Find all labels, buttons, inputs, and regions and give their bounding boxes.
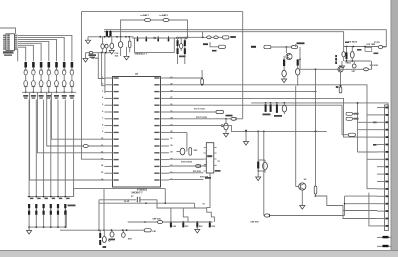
wire bus under chains [22, 91, 76, 93]
label cluster 104 [89, 54, 97, 56]
input chain R11/D11 column 1 [24, 62, 27, 68]
diode D10 [231, 117, 236, 120]
wire long vertical to Q7 [295, 86, 297, 187]
U7 right pin 18 [161, 172, 170, 174]
label matrix diodes [68, 205, 76, 207]
wire U7 pin2 feed [102, 53, 105, 86]
svg-text:U10 7805: U10 7805 [367, 44, 377, 46]
net label feed b [346, 117, 353, 120]
junction open b [177, 37, 179, 39]
wire Q5 down rail [295, 44, 297, 47]
capacitor C3 reservoir [118, 42, 122, 48]
U7 left pin 3 [105, 91, 113, 93]
J2 pin 9 [377, 166, 385, 168]
J2 pin 10 [377, 173, 385, 175]
svg-text:XXXX: XXXX [346, 63, 352, 65]
resistor R13 [265, 104, 267, 112]
junction [128, 36, 130, 38]
ground C15 [243, 142, 248, 146]
wire 7805 mid rail [345, 60, 371, 62]
svg-text:AT89S52: AT89S52 [137, 189, 148, 192]
wire fan-out row 5 [18, 43, 41, 61]
crystal Y1 [177, 40, 179, 46]
wire column drop 2 [35, 100, 37, 197]
U7 right pin 26 [161, 118, 170, 120]
junction [116, 36, 118, 38]
U7 right pin 19 [161, 165, 170, 167]
wire feed pin5 [344, 136, 378, 137]
U7 right pin 23 [161, 138, 170, 140]
wire branch pin row 9 [186, 132, 188, 151]
U7 left pin 13 [105, 159, 113, 161]
svg-text:XX2: XX2 [199, 226, 203, 228]
svg-text:54XX8-7-7: 54XX8-7-7 [132, 192, 144, 195]
wire row p2 b [169, 172, 204, 174]
svg-text:XX1: XX1 [185, 226, 189, 228]
svg-text:XT1 T1 XX1: XT1 T1 XX1 [194, 108, 206, 110]
wire vert x263 [263, 131, 265, 215]
svg-text:XX0: XX0 [173, 226, 177, 228]
U7 left pin 1 [105, 77, 113, 79]
status bar bottom edge [0, 250, 398, 257]
capacitor C15 [245, 130, 247, 131]
wire column drop 3 [43, 100, 45, 197]
resistor R14 [270, 104, 272, 112]
U7 right pin 32 [161, 77, 170, 79]
wire battery branch [121, 20, 188, 37]
resistor R1 to BAT [145, 18, 151, 21]
wire fan-out row 1 [18, 35, 72, 61]
junction row [245, 131, 247, 133]
svg-text:XX3: XX3 [211, 226, 215, 228]
ground C3 [124, 56, 129, 60]
wire column drop 5 [57, 100, 59, 197]
ground 7805 [341, 61, 343, 66]
input chain R13/D13 column 3 [40, 62, 43, 68]
U8 pins [204, 148, 217, 172]
wire feed pin11 [345, 203, 378, 205]
wire VCC bus lower [104, 32, 344, 47]
wire route chain to U7 pin10 [47, 92, 83, 146]
wire reset row [176, 36, 223, 38]
U7 left pin 8 [105, 125, 113, 127]
wire route chain to U7 pin11 [37, 92, 104, 153]
U7 left pin 9 [105, 131, 113, 133]
U7 left pin 5 [105, 104, 113, 106]
wire fan-out row 6 [18, 45, 33, 61]
J2 pin 11 [377, 181, 385, 183]
label xtal cluster [179, 56, 186, 58]
wire digit driver rail [132, 37, 186, 39]
junction open a [154, 37, 156, 39]
wire q8 row2 [316, 68, 364, 70]
diode pair D6 matrix column 6 [64, 196, 66, 198]
svg-text:GND4148-7-7: GND4148-7-7 [135, 53, 148, 56]
regulator U10 7805 [365, 48, 372, 52]
junction [125, 36, 127, 38]
U7 left pin 14 [105, 165, 113, 167]
junction bottom bus [98, 229, 100, 231]
wire U7 pin1 feed [98, 53, 104, 79]
wire matrix under-IC link [74, 189, 166, 197]
ground bus left [87, 37, 89, 40]
U7 left pin 16 [105, 179, 113, 181]
wire top-left entry [0, 28, 16, 34]
resistor R10 pull [201, 79, 204, 85]
wire row P0.2 bus [169, 98, 344, 136]
resistor R5 vertical [128, 41, 131, 47]
part X2 bottom [110, 232, 114, 237]
wire column drop 6 [64, 100, 66, 197]
capacitor C20 [352, 64, 356, 68]
junction [120, 36, 122, 38]
svg-text:U8P XX5: U8P XX5 [153, 218, 162, 220]
capacitor C13 under IC [137, 197, 140, 203]
junction [108, 36, 110, 38]
wire row p2 c [169, 179, 204, 181]
resistor R12 bottom [99, 233, 101, 238]
junction r1 [265, 102, 267, 104]
diode D9 row [195, 165, 200, 168]
transistor Q5 [286, 53, 292, 59]
transistor Q4 digit driver [168, 39, 170, 42]
wire stair a [170, 208, 172, 222]
wire row P0.6 route [169, 126, 327, 132]
ground bottom row [196, 227, 198, 230]
ground cluster [257, 171, 259, 177]
J2 pin 16 [377, 218, 385, 220]
svg-text:R9 300: R9 300 [92, 58, 99, 60]
wire feed loop [369, 193, 377, 226]
transistor Q9 bottom row [209, 221, 211, 223]
wire long vert right [357, 103, 359, 152]
wire fan-out row 2 [18, 37, 64, 61]
wire fan-out row 7 [18, 47, 26, 61]
wire under IC [99, 199, 136, 201]
capacitor C1 [101, 44, 104, 49]
capacitor C2 [110, 43, 114, 48]
resistor R15 [276, 104, 278, 113]
J2 pin side marks [373, 122, 377, 124]
capacitor C4a [177, 48, 179, 54]
U7 right pin 30 [161, 91, 170, 93]
transistor Q1 digit driver [137, 39, 139, 42]
battery plug P3 [378, 46, 383, 49]
wire Q5 base drop [285, 47, 287, 53]
diode pair D3 matrix column 3 [43, 196, 45, 198]
ground cluster left [85, 53, 87, 59]
capacitor C5 bead [207, 36, 211, 39]
wire column drop 4 [50, 100, 52, 197]
capacitor C16 [282, 105, 286, 112]
J2 pin 12 [377, 188, 385, 190]
wire row P0.3 bus [169, 105, 342, 135]
wire column drop 7 [73, 100, 75, 197]
connector J2 body [385, 105, 389, 231]
U7 left pin 7 [105, 118, 113, 120]
net label column [335, 58, 337, 61]
diode pair D4 matrix column 4 [50, 196, 52, 198]
resistor R3 vertical [106, 31, 108, 36]
U7 left pin 6 [105, 111, 113, 113]
transistor Q7 bottom row [182, 221, 184, 223]
wire 7805 top rail [344, 46, 387, 48]
U7 right pin 17 [161, 179, 170, 181]
wire R17 staircase [316, 196, 378, 211]
capacitor C11 [224, 123, 228, 130]
wire Q7 emitter ground [301, 190, 303, 205]
wire row p2 a [169, 165, 204, 167]
ground C2 [109, 50, 114, 54]
wire route chain to U7 pin9 [51, 92, 104, 139]
input chain R16/D16 column 6 [63, 62, 66, 68]
wire rail up [344, 196, 346, 215]
J2 pin 4 [377, 129, 385, 131]
J2 pin 1 [377, 107, 385, 109]
wire row P0.4 [169, 111, 217, 113]
transistor Q3 digit driver [157, 39, 159, 42]
wire fan-out row 4 [18, 41, 49, 61]
J2 pin 17 [377, 225, 385, 227]
diode D11 [264, 214, 269, 217]
wire Q5 collector [299, 48, 301, 59]
U7 left pin 11 [105, 145, 113, 147]
wire feed pin8 [367, 158, 377, 160]
label parts [263, 114, 271, 116]
wire cluster mid rail [86, 52, 113, 54]
wire feed pin10 [376, 210, 378, 213]
wire bead link [144, 221, 146, 223]
capacitor C4b [180, 44, 183, 49]
wire row P0.7 [169, 131, 187, 133]
input chain R12/D12 column 2 [32, 62, 35, 68]
label 4.7k [203, 43, 208, 45]
J2 pin 6 [377, 144, 385, 146]
resistor R18 [340, 72, 342, 87]
junction [99, 36, 101, 38]
U7 right pin 27 [161, 111, 170, 113]
wire top frame horizontal [82, 11, 243, 13]
wire VCC bus upper [104, 30, 386, 44]
wire vert x258 [257, 131, 259, 160]
wire feed pin9 [367, 159, 377, 188]
wire IC bottom drop [103, 189, 105, 230]
wire under drivers [135, 38, 175, 52]
svg-text:to BAT2: to BAT2 [160, 14, 169, 17]
wire vert x315 [315, 69, 317, 131]
scrollbar track right edge [391, 0, 398, 257]
J2 pin 17 stub [377, 236, 391, 238]
wire zigzag from U8 [207, 173, 215, 222]
transistor Q7 [299, 183, 306, 190]
svg-text:to BAT1: to BAT1 [141, 14, 150, 17]
diode pair D1 matrix column 1 [28, 196, 30, 198]
wire row P0.1 bus [169, 91, 316, 93]
wire fan-out row 8 [17, 49, 19, 61]
resistor R2 to BAT [163, 18, 169, 21]
J2 pin 7 [377, 151, 385, 153]
capacitor C21 [105, 44, 108, 48]
junction [104, 36, 106, 38]
resistor R8 vertical [297, 59, 299, 65]
resistor R4 vertical [109, 31, 111, 36]
wire Q7 base [296, 186, 299, 188]
resistor R11 [189, 148, 192, 156]
wire q8 row [300, 68, 316, 70]
wire matrix bottom rail [29, 210, 66, 227]
wire r16 c17 tie [258, 159, 265, 161]
wire bottom drop a [98, 200, 100, 230]
transistor Q2 digit driver [146, 39, 148, 42]
svg-text:P3 XX: P3 XX [374, 42, 380, 44]
svg-text:XT4 74 XX4: XT4 74 XX4 [181, 161, 193, 164]
transistor Q8 [338, 67, 343, 72]
connector J1 (keypad header) [6, 34, 15, 51]
resistor R21 inline [83, 145, 88, 148]
U7 right pin 28 [161, 104, 170, 106]
part bottom d [122, 233, 126, 238]
net label P10 [251, 46, 256, 48]
capacitor C12 [180, 148, 185, 155]
wire bottom mid bus [60, 229, 144, 231]
op-amp U8 box [206, 143, 214, 173]
ground matrix [28, 227, 30, 230]
U7 left pin 12 [105, 152, 113, 154]
net label bottom [144, 229, 151, 232]
op-amp U7 body (MCU AT89S52) [113, 77, 161, 188]
U7 left pin 2 [105, 84, 113, 86]
net label feed a [346, 112, 353, 115]
J2 pin 5 [377, 136, 385, 138]
capacitor C17 [263, 162, 268, 169]
wire net rect link [342, 134, 348, 136]
wire row p2 e [169, 158, 204, 160]
svg-text:XX8 XX8: XX8 XX8 [370, 65, 379, 67]
transistor Q8 bottom row [196, 221, 198, 223]
transistor Q6 bottom row [170, 221, 172, 223]
wire fan-out row 3 [18, 39, 57, 61]
ground C11 [223, 133, 228, 137]
U7 right pin 21 [161, 152, 170, 154]
U7 right pin 25 [161, 125, 170, 127]
wire row P0.0 bus [169, 85, 367, 160]
wire under IC right [140, 200, 207, 208]
net label on row [216, 110, 224, 113]
wire top frame right vertical [242, 12, 244, 119]
wire P10 to Q5 [271, 46, 296, 48]
capacitor C18 [342, 52, 345, 57]
junction reset [202, 36, 204, 38]
capacitor C7 [282, 70, 286, 77]
input chain R14/D14 column 4 [48, 62, 51, 68]
wire feed pin12 [345, 195, 378, 197]
capacitor C19 [350, 51, 354, 58]
J2 pin 15 [377, 210, 385, 212]
U7 left pin 4 [105, 97, 113, 99]
diode pair D5 matrix column 5 [57, 196, 59, 198]
resistor R19 [346, 52, 348, 59]
input chain R17/D17 column 7 [71, 62, 74, 68]
J2 pin 18 stub [377, 245, 391, 247]
wire feed pin4 [358, 129, 378, 131]
wire row P0.5 [169, 118, 243, 120]
wire row aux bus [251, 103, 388, 108]
wire bottom row [128, 221, 213, 223]
U7 left pin 10 [105, 138, 113, 140]
wire column drop 1 [28, 100, 30, 197]
diode pair D2 matrix column 2 [35, 196, 37, 198]
wire row VCC ext [169, 77, 202, 79]
J2 pin 14 [377, 203, 385, 205]
svg-text:XX XXXX: XX XXXX [349, 42, 358, 44]
wire top cluster bus [96, 36, 134, 38]
resistor R6 horizontal [292, 46, 298, 49]
U7 left pin 15 [105, 172, 113, 174]
resistor R7 vertical [283, 59, 285, 66]
net label right mid [348, 133, 355, 136]
wire stair b [183, 208, 188, 222]
svg-text:XX6 XX6: XX6 XX6 [251, 222, 260, 224]
capacitor C9 bead [89, 52, 93, 54]
net label P20 [219, 45, 226, 48]
wire U7 pin3 feed [104, 53, 106, 93]
U7 right pin 31 [161, 84, 170, 86]
wire bottom right rail [264, 215, 345, 217]
resistor R17 vertical [314, 186, 317, 194]
input chain R15/D15 column 5 [55, 62, 58, 68]
U7 right pin 29 [161, 97, 170, 99]
U7 right pin 20 [161, 159, 170, 161]
wire matrix top rail [28, 196, 74, 198]
capacitor C8 [296, 69, 300, 76]
wire top frame left vertical [82, 12, 105, 160]
svg-text:X7: X7 [218, 161, 220, 163]
wire feed pin7 [358, 151, 378, 153]
J2 pin 2 [377, 114, 385, 116]
J2 pin 8 [377, 158, 385, 160]
U7 right pin 24 [161, 131, 170, 133]
wire route chain to U7 pin15 [30, 92, 105, 180]
svg-text:U7: U7 [203, 204, 205, 206]
J2 pin 13 [377, 195, 385, 197]
capacitor C6 bead [214, 36, 218, 39]
wire feed lower pins [343, 211, 377, 219]
wire under IC second [99, 202, 195, 204]
U7 right pin 22 [161, 145, 170, 147]
wire left col [358, 121, 378, 123]
net label RST [223, 36, 230, 39]
diode D12 [364, 68, 369, 71]
crystal load R [184, 40, 186, 46]
J2 pin 3 [377, 121, 385, 123]
part U8 bead [157, 220, 162, 223]
capacitor C14 bottom [102, 237, 106, 243]
resistor R16 [257, 162, 259, 169]
capacitor C4c [184, 48, 186, 54]
wire left col2 [367, 114, 377, 116]
ground Q5 chain [282, 79, 287, 83]
label 7805 extra [357, 49, 362, 51]
